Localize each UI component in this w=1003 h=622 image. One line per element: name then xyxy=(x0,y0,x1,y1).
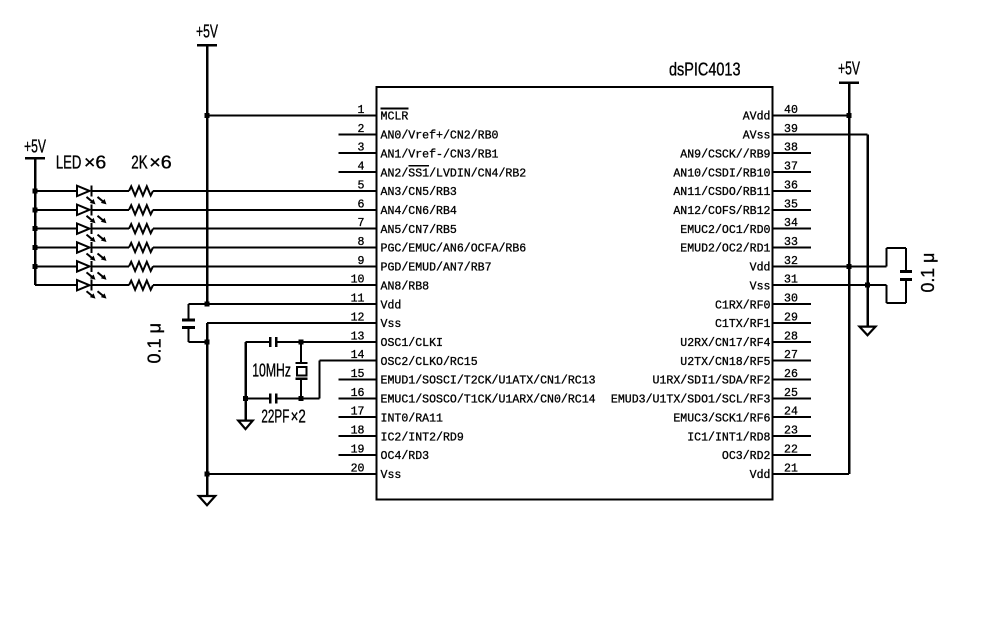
svg-text:EMUC1/SOSCO/T1CK/U1ARX/CN0/RC1: EMUC1/SOSCO/T1CK/U1ARX/CN0/RC14 xyxy=(381,394,596,407)
svg-text:IC2/INT2/RD9: IC2/INT2/RD9 xyxy=(381,431,464,444)
svg-text:AN2/SS1/LVDIN/CN4/RB2: AN2/SS1/LVDIN/CN4/RB2 xyxy=(381,167,527,180)
svg-text:+5V: +5V xyxy=(838,57,860,78)
svg-text:C1TX/RF1: C1TX/RF1 xyxy=(715,318,771,331)
svg-text:AN0/Vref+/CN2/RB0: AN0/Vref+/CN2/RB0 xyxy=(381,130,499,143)
svg-text:17: 17 xyxy=(351,406,365,419)
svg-text:EMUC3/SCK1/RF6: EMUC3/SCK1/RF6 xyxy=(673,412,770,425)
svg-text:EMUC2/OC1/RD0: EMUC2/OC1/RD0 xyxy=(680,224,770,237)
svg-text:AN9/CSCK//RB9: AN9/CSCK//RB9 xyxy=(680,148,770,161)
svg-text:AVdd: AVdd xyxy=(743,111,771,124)
svg-text:37: 37 xyxy=(784,161,798,174)
svg-text:Vss: Vss xyxy=(381,469,402,482)
svg-text:0.1 μ: 0.1 μ xyxy=(917,253,938,293)
svg-text:U2TX/CN18/RF5: U2TX/CN18/RF5 xyxy=(680,356,770,369)
svg-text:0.1 μ: 0.1 μ xyxy=(144,323,165,364)
svg-text:+5V: +5V xyxy=(24,135,46,156)
svg-text:27: 27 xyxy=(784,349,798,362)
svg-text:U2RX/CN17/RF4: U2RX/CN17/RF4 xyxy=(680,337,770,350)
svg-text:2: 2 xyxy=(358,123,365,136)
svg-text:PGC/EMUC/AN6/OCFA/RB6: PGC/EMUC/AN6/OCFA/RB6 xyxy=(381,243,527,256)
svg-text:33: 33 xyxy=(784,236,798,249)
svg-text:LED: LED xyxy=(56,152,82,173)
svg-text:Vss: Vss xyxy=(381,318,402,331)
svg-text:+5V: +5V xyxy=(196,21,218,42)
svg-text:34: 34 xyxy=(784,217,798,230)
svg-text:Vdd: Vdd xyxy=(381,299,402,312)
svg-text:3: 3 xyxy=(358,142,365,155)
svg-text:16: 16 xyxy=(351,387,365,400)
svg-text:OSC1/CLKI: OSC1/CLKI xyxy=(381,337,443,350)
svg-text:22: 22 xyxy=(784,443,798,456)
svg-text:38: 38 xyxy=(784,142,798,155)
svg-text:AVss: AVss xyxy=(743,130,771,143)
svg-text:AN11/CSDO/RB11: AN11/CSDO/RB11 xyxy=(673,186,770,199)
svg-text:×6: ×6 xyxy=(84,152,106,173)
svg-text:OSC2/CLKO/RC15: OSC2/CLKO/RC15 xyxy=(381,356,478,369)
svg-text:Vdd: Vdd xyxy=(750,469,771,482)
svg-text:Vdd: Vdd xyxy=(750,262,771,275)
svg-text:AN10/CSDI/RB10: AN10/CSDI/RB10 xyxy=(673,167,770,180)
svg-text:24: 24 xyxy=(784,406,798,419)
svg-text:AN5/CN7/RB5: AN5/CN7/RB5 xyxy=(381,224,457,237)
svg-text:EMUD1/SOSCI/T2CK/U1ATX/CN1/RC1: EMUD1/SOSCI/T2CK/U1ATX/CN1/RC13 xyxy=(381,375,596,388)
svg-text:30: 30 xyxy=(784,293,798,306)
svg-text:35: 35 xyxy=(784,198,798,211)
svg-text:U1RX/SDI1/SDA/RF2: U1RX/SDI1/SDA/RF2 xyxy=(653,375,771,388)
svg-text:IC1/INT1/RD8: IC1/INT1/RD8 xyxy=(687,431,770,444)
svg-text:×2: ×2 xyxy=(291,405,306,426)
svg-text:OC4/RD3: OC4/RD3 xyxy=(381,450,430,463)
svg-text:AN1/Vref-/CN3/RB1: AN1/Vref-/CN3/RB1 xyxy=(381,148,499,161)
svg-text:4: 4 xyxy=(358,161,365,174)
svg-text:AN12/COFS/RB12: AN12/COFS/RB12 xyxy=(673,205,770,218)
svg-text:26: 26 xyxy=(784,368,798,381)
svg-text:EMUD3/U1TX/SDO1/SCL/RF3: EMUD3/U1TX/SDO1/SCL/RF3 xyxy=(611,394,771,407)
svg-text:22PF: 22PF xyxy=(261,405,289,426)
svg-text:AN8/RB8: AN8/RB8 xyxy=(381,280,430,293)
svg-text:2K: 2K xyxy=(131,152,148,173)
svg-text:MCLR: MCLR xyxy=(381,111,409,124)
svg-text:19: 19 xyxy=(351,443,365,456)
svg-text:Vss: Vss xyxy=(750,280,771,293)
svg-text:EMUD2/OC2/RD1: EMUD2/OC2/RD1 xyxy=(680,243,770,256)
svg-text:AN4/CN6/RB4: AN4/CN6/RB4 xyxy=(381,205,457,218)
svg-text:AN3/CN5/RB3: AN3/CN5/RB3 xyxy=(381,186,457,199)
svg-text:C1RX/RF0: C1RX/RF0 xyxy=(715,299,771,312)
svg-text:28: 28 xyxy=(784,330,798,343)
svg-text:23: 23 xyxy=(784,425,798,438)
svg-text:×6: ×6 xyxy=(149,152,171,173)
svg-text:25: 25 xyxy=(784,387,798,400)
svg-text:10MHz: 10MHz xyxy=(252,359,291,380)
svg-text:PGD/EMUD/AN7/RB7: PGD/EMUD/AN7/RB7 xyxy=(381,262,492,275)
svg-text:18: 18 xyxy=(351,425,365,438)
svg-text:29: 29 xyxy=(784,311,798,324)
svg-text:15: 15 xyxy=(351,368,365,381)
svg-text:36: 36 xyxy=(784,179,798,192)
svg-text:INT0/RA11: INT0/RA11 xyxy=(381,412,444,425)
svg-text:dsPIC4013: dsPIC4013 xyxy=(669,59,741,80)
svg-text:OC3/RD2: OC3/RD2 xyxy=(722,450,771,463)
